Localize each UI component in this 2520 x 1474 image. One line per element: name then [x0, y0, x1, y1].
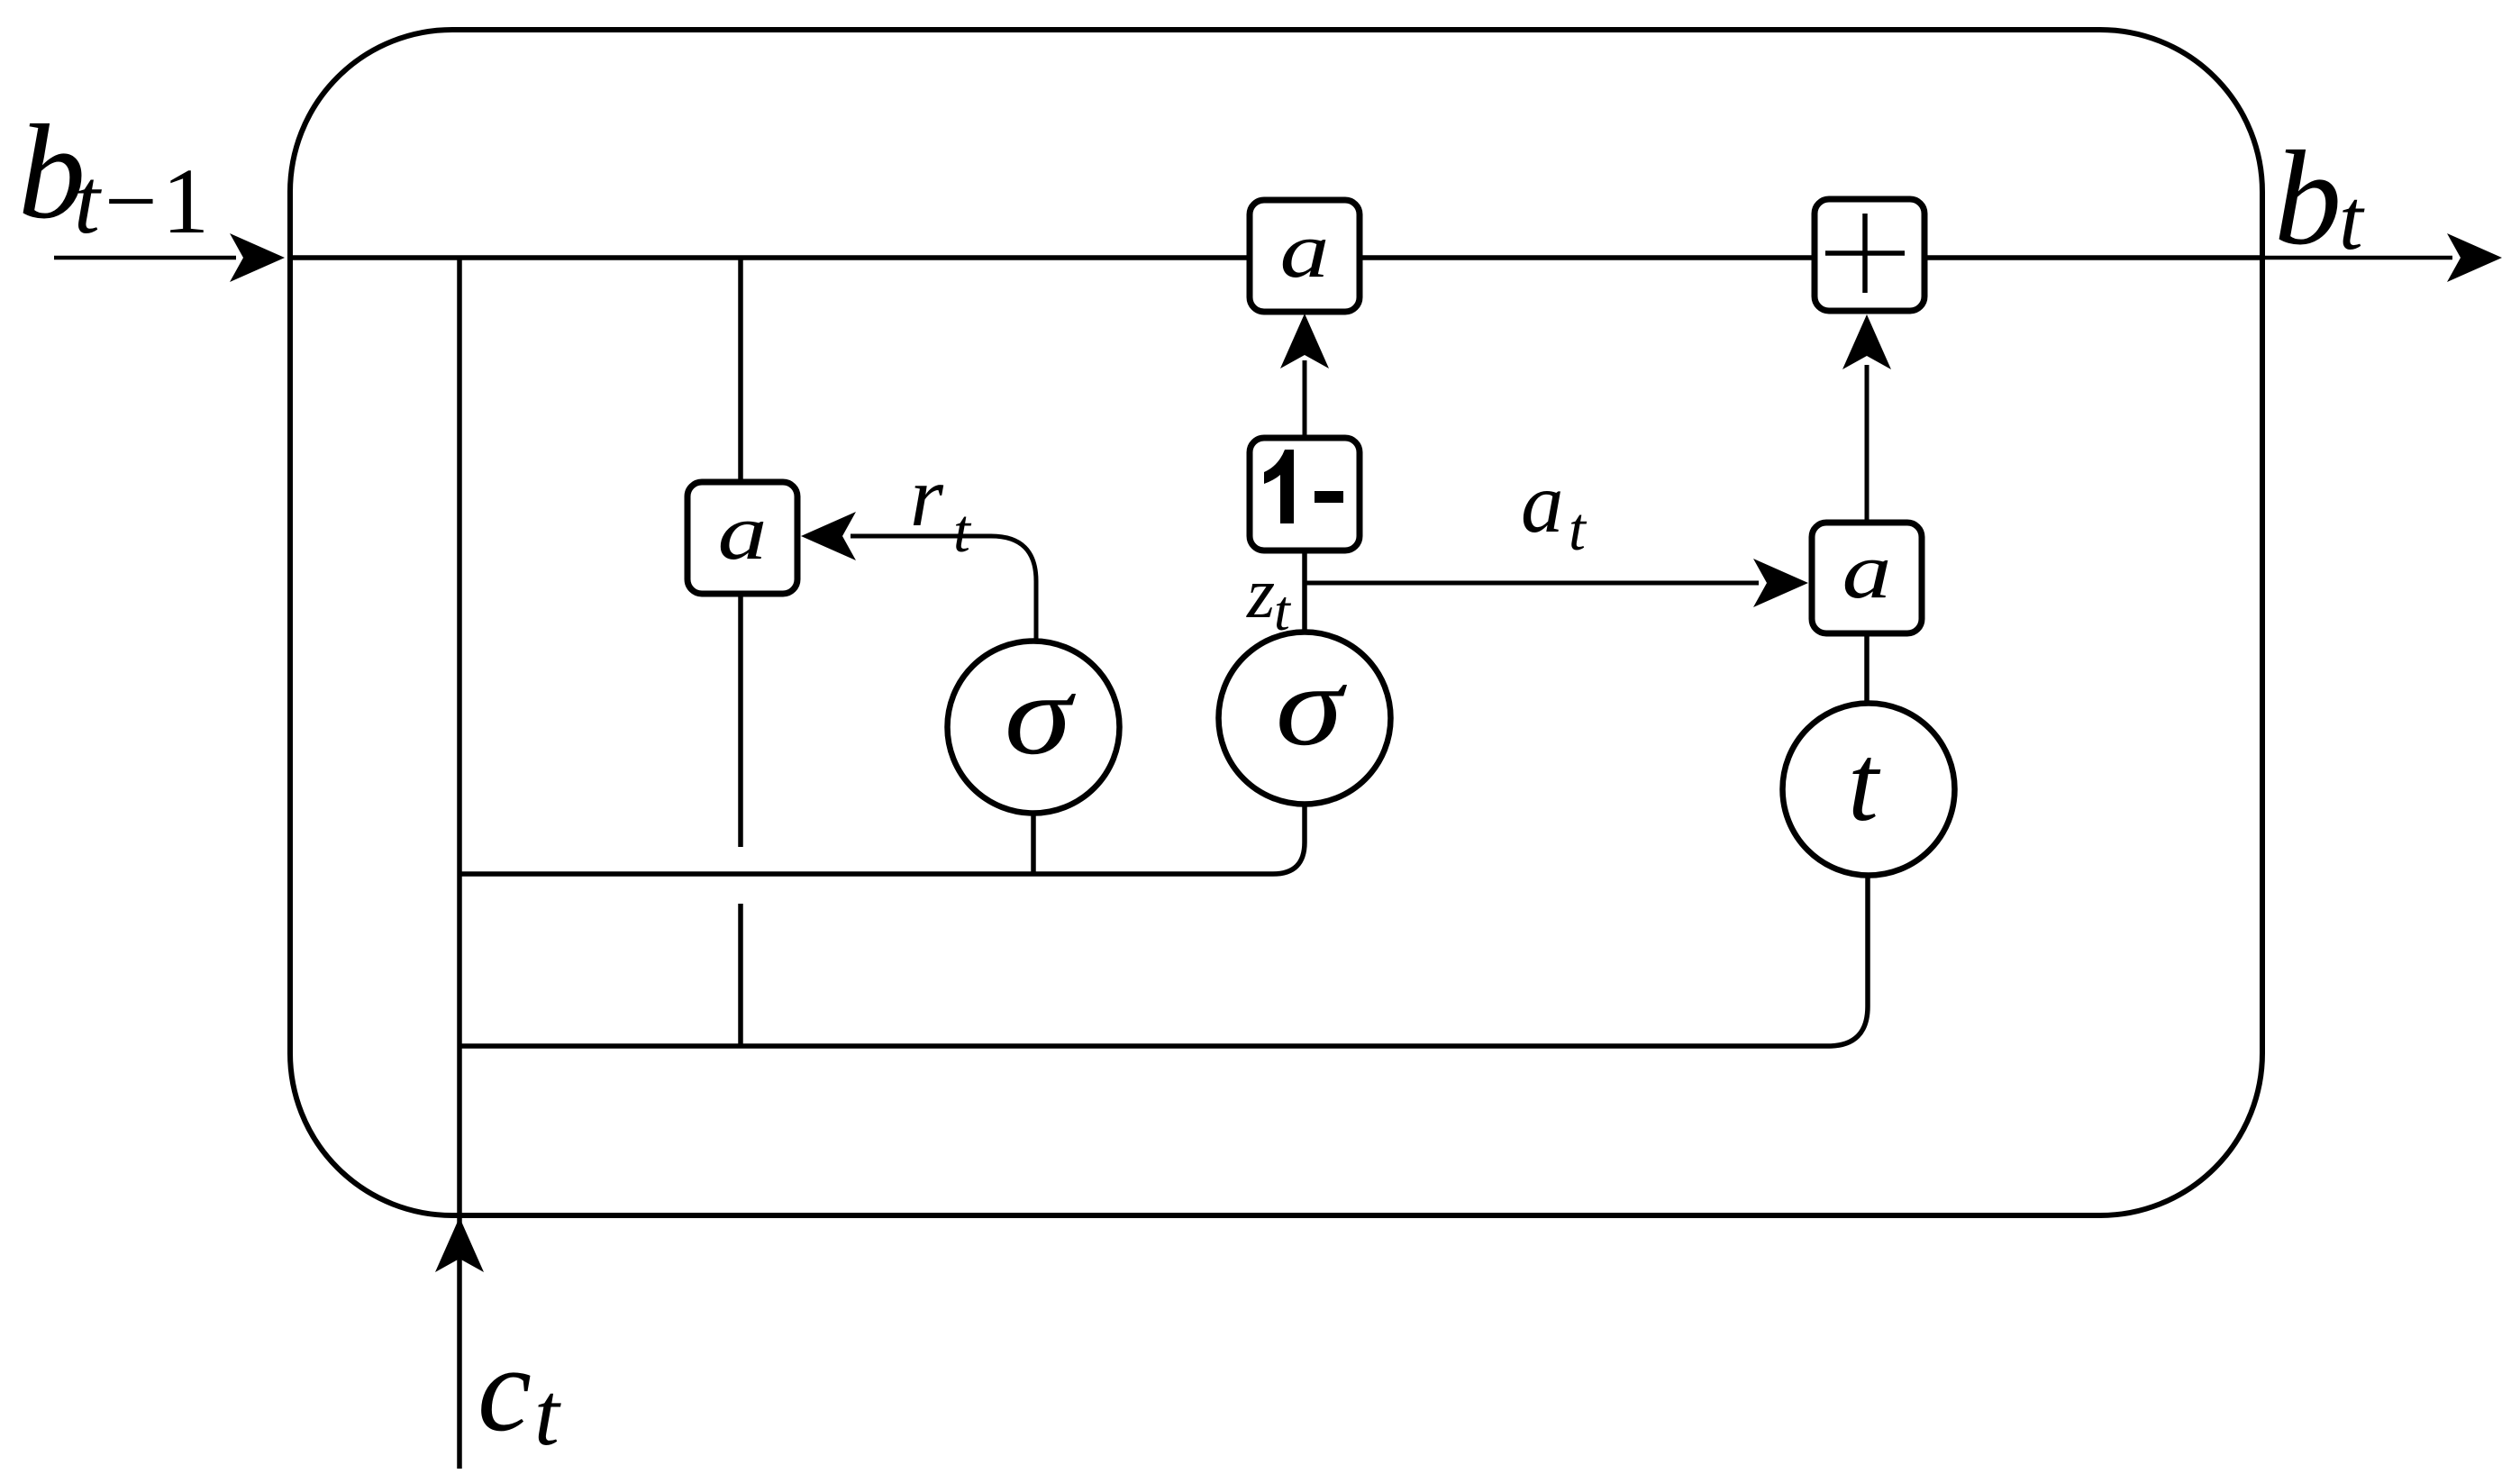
svg-text:t: t	[1569, 495, 1588, 563]
wire main b line inside cell	[290, 255, 2262, 260]
svg-text:t: t	[534, 1364, 561, 1464]
svg-text:t: t	[1274, 578, 1292, 642]
wire t circle stem up to right a box	[1864, 633, 1870, 704]
wire vertical x=822 after hop down to line 2	[738, 904, 743, 1046]
box a right (update gate multiply)	[1812, 523, 1922, 633]
svg-text:σ: σ	[1005, 651, 1077, 779]
wire a_t arrow from z junction to right a box	[1305, 559, 1808, 607]
box plus (add)	[1815, 199, 1924, 311]
sigma circle 1 (reset gate)	[948, 641, 1120, 814]
label r_t	[910, 449, 972, 565]
svg-text:1: 1	[162, 150, 209, 253]
svg-text:−: −	[105, 150, 158, 253]
GRU cell outer rounded rectangle	[290, 30, 2262, 1215]
wire line 2 (y=1161) from c_t vertical to t circle	[459, 875, 1868, 1046]
svg-text:a: a	[1280, 205, 1330, 294]
svg-text:r: r	[910, 449, 944, 544]
wire b_t-1 input arrow	[54, 233, 285, 282]
t circle (tanh)	[1783, 704, 1955, 876]
wire arrow right a box up to plus box	[1842, 314, 1891, 523]
svg-text:a: a	[1521, 455, 1564, 550]
label b_t-1	[18, 97, 209, 253]
wire sigma2 top stem to 1- box	[1302, 550, 1307, 632]
box a top (on b line)	[1250, 200, 1360, 312]
wire vertical x=822 from a box down to hop	[738, 592, 743, 847]
label z_t	[1246, 554, 1292, 642]
label a_t	[1521, 455, 1588, 563]
svg-text:a: a	[718, 487, 768, 576]
wire c_t vertical line (x=510) from b-line to bottom edge	[457, 258, 462, 1215]
wire sigma1 stem down to line 1	[1031, 813, 1036, 874]
wire r_t arrow from sigma1 to left a box	[801, 512, 1036, 641]
svg-text:b: b	[2274, 123, 2342, 273]
label b_t	[2274, 123, 2365, 273]
svg-text:t: t	[1848, 723, 1881, 844]
svg-text:z: z	[1246, 554, 1275, 633]
wire c_t input arrow below cell	[435, 1217, 484, 1469]
box 1- (one minus)	[1250, 438, 1360, 550]
wire line 1 (y=970) from c_t vertical to sigma2	[459, 805, 1305, 874]
svg-text:t: t	[74, 150, 102, 253]
svg-text:t: t	[953, 496, 972, 565]
wire arrow 1- box up to top a box	[1280, 314, 1329, 438]
wire vertical x=822 from b-line to left a box	[738, 258, 743, 484]
box a left (reset gate multiply)	[687, 482, 797, 594]
wire b_t output arrow	[2262, 233, 2502, 282]
svg-text:c: c	[478, 1323, 532, 1457]
svg-text:σ: σ	[1276, 642, 1348, 770]
svg-text:a: a	[1842, 526, 1892, 614]
sigma circle 2 (update gate)	[1219, 632, 1391, 805]
label c_t	[478, 1323, 561, 1464]
svg-text:t: t	[2339, 171, 2365, 268]
